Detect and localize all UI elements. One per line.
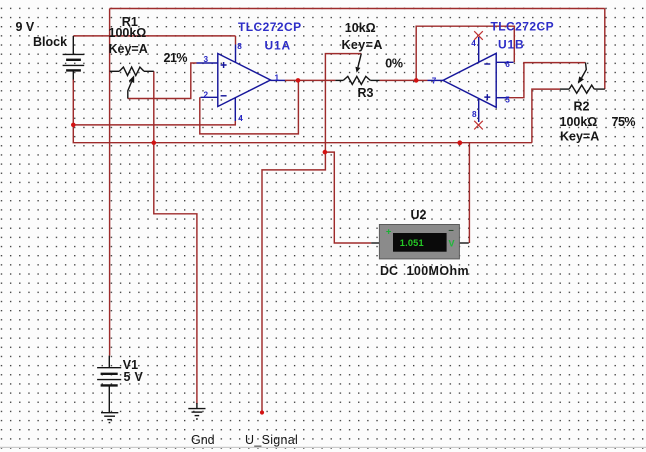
svg-text:TLC272CP: TLC272CP — [238, 20, 302, 34]
svg-text:R3: R3 — [358, 86, 374, 100]
svg-text:TLC272CP: TLC272CP — [491, 20, 555, 34]
svg-text:DC: DC — [380, 264, 398, 278]
svg-text:5: 5 — [505, 95, 510, 104]
svg-text:U1B: U1B — [498, 37, 524, 51]
svg-text:2: 2 — [204, 90, 209, 99]
svg-text:V: V — [449, 238, 455, 248]
svg-text:U2: U2 — [411, 208, 427, 222]
svg-text:100MOhm: 100MOhm — [407, 264, 470, 278]
svg-text:Block: Block — [33, 35, 67, 49]
svg-text:8: 8 — [472, 110, 477, 119]
svg-text:4: 4 — [238, 114, 243, 123]
svg-text:100kΩ: 100kΩ — [109, 26, 147, 40]
svg-text:3: 3 — [204, 55, 209, 64]
svg-text:75%: 75% — [612, 115, 636, 129]
svg-text:Key=A: Key=A — [342, 38, 383, 52]
svg-text:10kΩ: 10kΩ — [345, 21, 376, 35]
svg-text:7: 7 — [432, 77, 437, 86]
svg-text:Key=A: Key=A — [560, 129, 599, 143]
svg-text:U_Signal: U_Signal — [245, 433, 298, 447]
svg-text:Gnd: Gnd — [191, 433, 215, 447]
svg-text:U1A: U1A — [265, 39, 291, 53]
svg-text:1: 1 — [275, 74, 280, 83]
svg-text:Key=A: Key=A — [109, 42, 148, 56]
svg-text:+: + — [386, 226, 392, 237]
svg-text:1.051: 1.051 — [400, 238, 424, 248]
svg-text:0%: 0% — [385, 57, 403, 71]
svg-text:6: 6 — [505, 60, 510, 69]
svg-text:−: − — [448, 226, 454, 237]
svg-text:8: 8 — [237, 42, 242, 51]
svg-text:4: 4 — [471, 39, 476, 48]
svg-text:R2: R2 — [574, 100, 590, 114]
svg-text:100kΩ: 100kΩ — [560, 115, 598, 129]
svg-text:21%: 21% — [164, 51, 188, 65]
svg-text:5 V: 5 V — [124, 370, 144, 384]
svg-text:9 V: 9 V — [16, 20, 35, 34]
